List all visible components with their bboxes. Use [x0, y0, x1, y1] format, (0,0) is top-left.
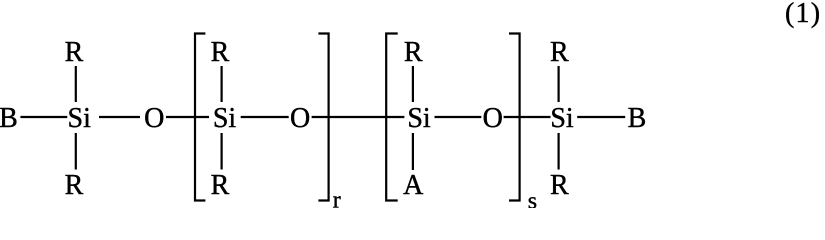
svg-text:R: R	[211, 37, 230, 68]
left bracket of s-unit	[386, 34, 398, 201]
svg-text:R: R	[550, 37, 569, 68]
bond Si4-B	[577, 116, 625, 118]
bond O1-Si2	[166, 116, 209, 118]
svg-text:r: r	[333, 188, 341, 209]
bond Si2-R vertical bottom	[221, 133, 223, 170]
svg-text:s: s	[528, 189, 537, 209]
bond Si1-R vertical bottom	[75, 133, 77, 170]
bond R-Si4 vertical top	[557, 66, 559, 102]
svg-text:R: R	[65, 37, 84, 68]
left bracket of r-unit	[195, 34, 205, 201]
bond O3-Si4	[504, 116, 551, 118]
bond R-Si3 vertical top	[412, 66, 414, 102]
svg-text:O: O	[483, 103, 503, 134]
svg-text:R: R	[404, 37, 423, 68]
svg-text:R: R	[211, 170, 230, 201]
svg-text:B: B	[0, 103, 18, 134]
bond Si3-O3	[435, 116, 482, 118]
svg-text:Si: Si	[68, 103, 92, 134]
bond Si1-O1	[99, 116, 140, 118]
svg-text:Si: Si	[407, 103, 431, 134]
bond B-Si1	[20, 116, 67, 118]
bond Si2-O2	[241, 116, 289, 118]
svg-text:O: O	[144, 103, 164, 134]
svg-text:Si: Si	[213, 103, 237, 134]
svg-text:B: B	[628, 103, 647, 134]
svg-text:R: R	[550, 170, 569, 201]
right bracket of s-unit	[509, 34, 520, 201]
svg-text:R: R	[65, 170, 84, 201]
svg-text:A: A	[403, 170, 424, 201]
right bracket of r-unit	[318, 34, 328, 201]
bond O2-Si3	[312, 116, 405, 118]
bond Si3-A vertical bottom	[412, 133, 414, 170]
bond Si4-R vertical bottom	[557, 133, 559, 170]
svg-text:O: O	[290, 103, 310, 134]
bond R-Si1 vertical top	[75, 66, 77, 102]
svg-text:Si: Si	[550, 103, 574, 134]
svg-text:(1): (1)	[785, 0, 821, 29]
bond R-Si2 vertical top	[221, 66, 223, 102]
